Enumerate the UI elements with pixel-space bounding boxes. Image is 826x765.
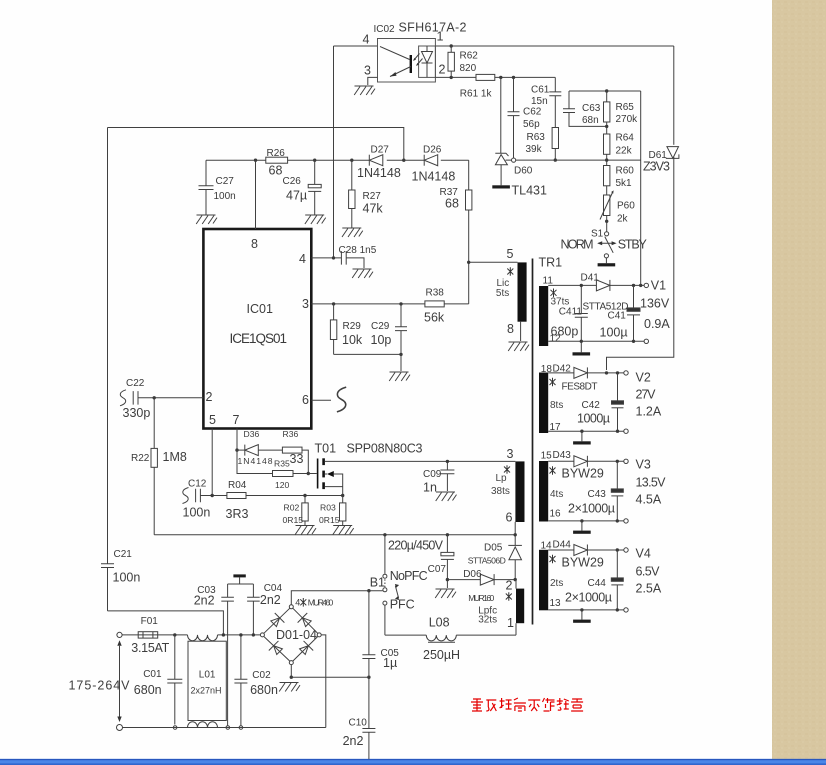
bridge diode D03 — [269, 641, 285, 657]
capacitor C28 — [341, 251, 346, 265]
ground under R27 — [342, 228, 363, 237]
svg-text:1n: 1n — [423, 481, 437, 495]
wire bridge minus stem — [290, 665, 292, 678]
capacitor C04 — [252, 584, 254, 597]
junction C43 bottom — [616, 519, 619, 522]
junction C07 top — [446, 533, 449, 536]
junction D60 tap — [499, 76, 502, 79]
junction C43 tap — [616, 460, 619, 463]
svg-text:3: 3 — [302, 297, 309, 311]
resistor R60 — [604, 166, 610, 186]
svg-text:C411: C411 — [559, 307, 583, 318]
svg-text:C07: C07 — [428, 564, 447, 575]
terminal V1 minus — [644, 339, 648, 343]
svg-text:P60: P60 — [617, 201, 635, 212]
svg-text:C09: C09 — [423, 469, 442, 480]
svg-text:D26: D26 — [423, 145, 442, 156]
wire TL431 ref rail — [506, 159, 641, 161]
wire HV bus down to B1 — [384, 535, 386, 574]
junction C05 bottom node — [367, 676, 370, 679]
svg-text:FES8DT: FES8DT — [562, 382, 598, 393]
junction V1 sense tap — [639, 284, 642, 287]
svg-text:R38: R38 — [426, 288, 445, 299]
ground bar under S1 — [598, 263, 616, 266]
svg-text:STTA506D: STTA506D — [468, 556, 506, 566]
svg-text:D05: D05 — [484, 543, 503, 554]
svg-text:STBY: STBY — [618, 238, 648, 252]
wire W1 bottom rail — [548, 340, 644, 342]
svg-text:100µ: 100µ — [600, 326, 628, 340]
svg-text:330p: 330p — [123, 406, 151, 420]
junction bottom rail — [399, 353, 402, 356]
capacitor C43 electrolytic — [616, 461, 618, 489]
off-page connector pin6 — [337, 387, 346, 412]
junction W2 gnd tap — [580, 430, 583, 433]
svg-text:120: 120 — [275, 480, 290, 490]
svg-text:R03: R03 — [320, 503, 336, 513]
junction R62 top — [450, 44, 453, 47]
svg-text:22k: 22k — [616, 146, 633, 157]
capacitor C27 — [205, 160, 207, 186]
junction C41 tap — [632, 284, 635, 287]
junction R64 bottom — [605, 158, 608, 161]
svg-text:T01: T01 — [315, 442, 337, 456]
svg-text:R61 1k: R61 1k — [460, 89, 493, 100]
resistor R61 — [476, 74, 495, 80]
junction C42 bottom — [616, 430, 619, 433]
junction R02 top — [303, 494, 306, 497]
resistor R38 — [425, 301, 444, 307]
diode D26 1N4148 — [424, 155, 438, 166]
svg-text:1.2A: 1.2A — [636, 405, 662, 419]
resistor R36 — [258, 449, 282, 451]
svg-text:D01-04: D01-04 — [276, 628, 317, 642]
junction R29 tap — [332, 302, 335, 305]
svg-text:2.5A: 2.5A — [636, 582, 662, 596]
wire D41 to V1 — [610, 284, 644, 286]
winding W3 bar — [539, 461, 548, 522]
winding Lic bar — [518, 262, 527, 321]
node TL431 ref circle — [511, 158, 515, 162]
svg-text:2n2: 2n2 — [194, 594, 215, 608]
svg-text:2x27nH: 2x27nH — [191, 686, 222, 696]
junction C44 tap — [616, 548, 619, 551]
wire pin5 — [211, 429, 213, 496]
node C01 bottom — [173, 726, 177, 730]
junction D05 top — [514, 533, 517, 536]
junction R03 top / source node — [341, 494, 344, 497]
wire R29-C29 bottom rail — [334, 353, 401, 355]
svg-text:2n2: 2n2 — [260, 593, 281, 607]
svg-text:270k: 270k — [616, 114, 639, 125]
svg-text:250µH: 250µH — [423, 648, 460, 662]
svg-text:C27: C27 — [216, 176, 235, 187]
wire PFC contact down — [384, 605, 386, 635]
capacitor C411 — [580, 285, 582, 313]
svg-text:ICE1QS01: ICE1QS01 — [230, 331, 288, 346]
terminal V4 minus — [624, 608, 628, 612]
svg-text:100n: 100n — [113, 571, 141, 585]
polarity star W1 — [551, 289, 557, 298]
svg-text:3R3: 3R3 — [226, 507, 249, 521]
capacitor C02 — [240, 635, 242, 679]
transformer core — [532, 259, 534, 625]
svg-text:39k: 39k — [526, 144, 543, 155]
svg-text:0R15: 0R15 — [283, 515, 304, 525]
svg-text:2: 2 — [206, 390, 213, 404]
junction C42 tap — [616, 371, 619, 374]
svg-text:2×1000µ: 2×1000µ — [565, 591, 612, 605]
wire S1 to ground — [605, 258, 607, 263]
winding Lp bar — [515, 461, 524, 522]
junction W3 gnd tap — [580, 519, 583, 522]
zener D61 Z3V3 — [667, 147, 679, 159]
svg-text:4ts: 4ts — [550, 489, 563, 500]
terminal AC live — [117, 632, 122, 637]
ground under C29 — [389, 372, 410, 381]
bridge diamond edges — [264, 608, 318, 661]
svg-text:12: 12 — [550, 334, 562, 345]
svg-text:V1: V1 — [651, 279, 666, 293]
wire Lpfc bottom lead — [515, 623, 517, 635]
switch S1 arrows — [599, 242, 616, 244]
capacitor C10 — [368, 677, 370, 728]
wire to ground pin3 net — [400, 354, 402, 371]
opto light arrows — [414, 54, 420, 61]
junction C62 tap — [512, 76, 515, 79]
svg-text:68: 68 — [269, 164, 283, 178]
resistor R35 — [237, 450, 273, 473]
svg-text:100n: 100n — [183, 506, 211, 520]
junction R62 bottom — [450, 76, 453, 79]
AC span arrows — [117, 640, 121, 646]
diode D41 STTA512D — [596, 280, 610, 291]
junction V2 jog tap — [605, 371, 608, 374]
bridge diode D04 — [298, 641, 314, 657]
wire opto pin1 rail — [435, 45, 673, 47]
wire pin8 — [255, 160, 257, 229]
svg-text:L01: L01 — [199, 670, 216, 681]
opto phototransistor — [410, 55, 412, 73]
svg-text:R36: R36 — [283, 429, 299, 439]
svg-text:1N4148: 1N4148 — [412, 170, 456, 184]
junction C05 top tap — [367, 589, 370, 592]
svg-text:1N4148: 1N4148 — [357, 166, 401, 180]
capacitor C26 electrolytic — [314, 160, 316, 184]
polarity star Lpfc — [506, 592, 512, 601]
svg-text:2×1000µ: 2×1000µ — [568, 502, 615, 516]
svg-text:D60: D60 — [514, 166, 533, 177]
switch S1 top contact — [605, 232, 609, 236]
red watermark text — [471, 699, 483, 711]
resistor R63 — [552, 128, 558, 149]
ground at bridge minus — [279, 683, 300, 692]
svg-text:F01: F01 — [141, 616, 159, 627]
capacitor C44 electrolytic — [616, 550, 618, 578]
diode D42 FES8DT — [548, 372, 574, 374]
svg-text:R02: R02 — [284, 503, 300, 513]
wire W4 bottom rail — [548, 609, 624, 611]
svg-text:3.15AT: 3.15AT — [131, 641, 169, 655]
wire feedback loop left vertical — [107, 128, 109, 564]
wire pin8 lead — [520, 322, 522, 341]
svg-text:5: 5 — [209, 413, 216, 427]
svg-text:PFC: PFC — [390, 598, 415, 612]
winding W2 bar — [539, 373, 548, 434]
node C03 bottom — [226, 726, 230, 730]
svg-text:8: 8 — [507, 322, 514, 336]
wire VCC rail — [206, 159, 469, 161]
svg-text:47µ: 47µ — [286, 189, 307, 203]
wire pin3 rail — [311, 303, 425, 305]
svg-text:Lp: Lp — [496, 473, 508, 484]
svg-text:C01: C01 — [143, 669, 162, 680]
ground under C09 — [436, 492, 457, 501]
connector B1 common contact — [383, 588, 387, 592]
wire W3 ground stem — [581, 521, 583, 531]
svg-text:68: 68 — [445, 197, 459, 211]
svg-text:2k: 2k — [617, 214, 629, 225]
resistor R26 — [266, 157, 288, 163]
svg-text:C43: C43 — [588, 489, 607, 500]
connector B1 PFC contact — [383, 601, 387, 605]
junction D06-Lpfc node — [514, 578, 517, 581]
wire feedback loop top — [108, 128, 404, 161]
svg-text:33: 33 — [290, 452, 304, 466]
svg-text:R35: R35 — [274, 459, 290, 469]
capacitor C05 — [368, 591, 370, 655]
svg-text:13: 13 — [550, 598, 562, 609]
wire opto pin2 rail — [435, 76, 476, 78]
capacitor C61 — [554, 77, 556, 92]
wire D42 to V2 — [587, 372, 623, 374]
svg-text:4: 4 — [295, 598, 300, 608]
svg-text:C21: C21 — [114, 549, 133, 560]
switch S1 bottom contact — [604, 254, 608, 258]
node bridge right — [317, 633, 321, 637]
svg-text:0R15: 0R15 — [319, 515, 340, 525]
terminal V2 minus — [624, 429, 628, 433]
junction pin4 node — [332, 256, 335, 259]
svg-text:IC02: IC02 — [374, 24, 396, 35]
polarity star W4 — [550, 555, 556, 564]
svg-text:C42: C42 — [582, 400, 601, 411]
svg-text:NORM: NORM — [561, 238, 594, 252]
resistor R27 — [351, 160, 353, 190]
off-page connector C12 — [183, 488, 189, 504]
polarity star Lp — [504, 465, 510, 474]
svg-text:15n: 15n — [531, 96, 548, 107]
polarity star Lic — [507, 267, 513, 276]
svg-text:47k: 47k — [363, 202, 384, 216]
ground under R03 — [333, 526, 354, 535]
svg-text:56p: 56p — [523, 119, 540, 130]
capacitor C22 — [133, 391, 138, 405]
wire primary return bus — [154, 522, 515, 535]
svg-text:5k1: 5k1 — [616, 178, 633, 189]
svg-text:68n: 68n — [582, 115, 599, 126]
junction R65 bottom — [605, 125, 608, 128]
diode D27 1N4148 — [369, 155, 383, 166]
svg-text:175-264V: 175-264V — [69, 679, 131, 693]
svg-text:R63: R63 — [527, 132, 546, 143]
svg-text:C26: C26 — [283, 176, 302, 187]
svg-text:MUR460: MUR460 — [308, 598, 334, 608]
ground under C07 — [435, 589, 456, 598]
svg-text:100n: 100n — [214, 191, 236, 202]
wire opto pin4 to IC pin4 vertical — [333, 46, 335, 258]
wire pin7 — [236, 429, 238, 451]
resistor R62 — [450, 46, 452, 52]
inductor L08 — [426, 635, 456, 641]
svg-text:1: 1 — [437, 30, 444, 44]
diode D44 BYW29 — [548, 549, 574, 551]
connector B1 NoPFC contact — [383, 574, 387, 578]
wire gate — [308, 473, 317, 475]
capacitor C01 — [174, 635, 176, 679]
junction C21 drop node — [222, 633, 225, 636]
wire W2 ground stem — [581, 431, 583, 441]
resistor R65 — [606, 91, 608, 102]
svg-text:1: 1 — [507, 616, 514, 630]
svg-text:R29: R29 — [343, 321, 362, 332]
ground bar under D60 — [492, 185, 510, 188]
wire W3 bottom rail — [548, 520, 624, 522]
svg-text:C10: C10 — [349, 717, 368, 728]
capacitor C07 electrolytic — [446, 535, 448, 553]
wire AC bottom line — [123, 727, 326, 729]
svg-text:0.9A: 0.9A — [644, 317, 670, 331]
capacitor C63 — [568, 91, 570, 109]
svg-text:C29: C29 — [371, 321, 390, 332]
B1 dotted link — [384, 579, 386, 587]
switch S1 lever — [605, 237, 613, 253]
junction C26 tap — [313, 159, 316, 162]
svg-text:B1: B1 — [370, 575, 385, 589]
wire W2 bottom rail — [548, 430, 624, 432]
ground under C26 — [305, 215, 326, 224]
capacitor C62 — [513, 77, 515, 111]
wire W1 ground stem — [580, 341, 582, 352]
svg-text:4.5A: 4.5A — [636, 493, 662, 507]
shunt regulator D60 TL431 — [500, 77, 502, 153]
svg-text:D43: D43 — [553, 450, 572, 461]
wire C12 to R04 — [200, 495, 227, 497]
svg-text:TL431: TL431 — [512, 184, 547, 198]
wire pin2 — [138, 397, 203, 399]
capacitor C09 — [446, 461, 448, 470]
ground under C28 — [352, 269, 373, 278]
capacitor C42 electrolytic — [617, 373, 619, 401]
junction C07 bottom node — [446, 578, 449, 581]
wire AC top line — [122, 634, 260, 636]
wire pin6 — [311, 399, 331, 401]
junction C411 top — [580, 284, 583, 287]
node bridge left — [260, 633, 264, 637]
junction W4 gnd tap — [580, 608, 583, 611]
svg-text:27V: 27V — [636, 388, 657, 402]
svg-text:7: 7 — [233, 413, 240, 427]
ground bar W3 — [573, 531, 591, 534]
svg-text:680n: 680n — [134, 683, 162, 697]
svg-text:D27: D27 — [371, 145, 390, 156]
junction P60 bottom — [605, 220, 608, 223]
junction bridge minus node — [290, 676, 293, 679]
diode D06 MUR160 — [480, 574, 494, 585]
svg-text:MUR160: MUR160 — [468, 593, 494, 603]
terminal V4 plus — [624, 548, 628, 552]
svg-text:D41: D41 — [581, 273, 600, 284]
winding W1 bar — [539, 286, 548, 346]
capacitor C29 — [400, 304, 402, 327]
svg-text:L08: L08 — [429, 616, 450, 630]
wire D06 rail — [447, 579, 515, 581]
capacitor C12 — [196, 489, 201, 503]
bridge diode D02 — [298, 613, 314, 629]
IC IC01 box — [203, 229, 311, 429]
svg-text:2n2: 2n2 — [343, 734, 364, 748]
node C02 bottom — [239, 726, 243, 730]
ground under C27 — [196, 215, 217, 224]
blue scrollbar at bottom — [0, 759, 826, 765]
svg-text:C44: C44 — [588, 578, 607, 589]
junction pin5 node — [467, 261, 470, 264]
terminal V1 plus — [644, 283, 648, 287]
svg-text:SFH617A-2: SFH617A-2 — [399, 21, 467, 35]
svg-text:680n: 680n — [250, 683, 278, 697]
svg-text:8: 8 — [251, 237, 258, 251]
svg-text:136V: 136V — [640, 297, 670, 311]
opto IC02 body box — [378, 39, 436, 83]
resistor R22 — [153, 398, 155, 449]
svg-text:15: 15 — [541, 450, 553, 461]
svg-text:220µ/450V: 220µ/450V — [388, 539, 444, 553]
wire W1 top lead — [548, 284, 596, 286]
ground opto pin3 — [354, 86, 375, 95]
svg-text:10k: 10k — [342, 333, 363, 347]
svg-text:1000µ: 1000µ — [577, 412, 610, 426]
svg-text:BYW29: BYW29 — [562, 467, 604, 481]
svg-text:D44: D44 — [553, 539, 572, 550]
svg-text:R65: R65 — [616, 102, 635, 113]
wire D44 to V4 — [587, 549, 623, 551]
svg-text:13.5V: 13.5V — [636, 476, 667, 490]
winding W4 bar — [539, 550, 548, 611]
svg-text:3: 3 — [507, 447, 514, 461]
junction W1 gnd tap — [580, 340, 583, 343]
svg-text:17: 17 — [550, 422, 562, 433]
svg-text:56k: 56k — [424, 311, 445, 325]
ground bar W2 — [573, 441, 591, 444]
svg-text:32ts: 32ts — [478, 615, 497, 626]
svg-text:SPP08N80C3: SPP08N80C3 — [347, 442, 423, 456]
terminal V2 plus — [624, 371, 628, 375]
wire pin4 — [311, 257, 341, 259]
svg-text:1N4148: 1N4148 — [238, 456, 273, 466]
svg-text:820: 820 — [460, 63, 477, 74]
svg-text:6.5V: 6.5V — [636, 565, 661, 579]
svg-text:2ts: 2ts — [550, 578, 563, 589]
ground under Lic — [508, 342, 529, 351]
wire L08 line — [385, 634, 516, 636]
opto led — [426, 46, 428, 52]
junction R65 top — [605, 89, 608, 92]
svg-text:C61: C61 — [531, 85, 550, 96]
ground bar W1 — [573, 352, 591, 355]
svg-text:C28 1n5: C28 1n5 — [339, 245, 377, 256]
junction C44 bottom — [616, 608, 619, 611]
svg-text:2: 2 — [506, 578, 513, 592]
